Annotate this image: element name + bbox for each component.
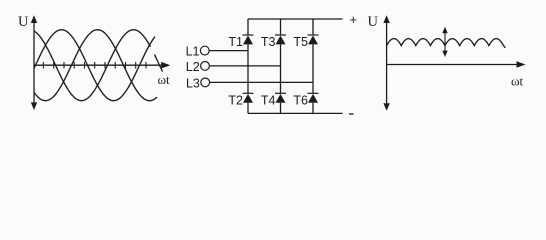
wire branch 1 lower	[247, 103, 249, 114]
left plot vertical axis U	[31, 15, 37, 110]
sine wave phase A	[34, 30, 155, 101]
svg-text:L3: L3	[186, 76, 200, 90]
wire bottom rail	[248, 112, 343, 114]
thyristor T1	[243, 35, 254, 44]
rectified ripple waveform	[387, 39, 506, 48]
thyristor T2	[243, 93, 254, 102]
svg-text:T5: T5	[293, 35, 308, 49]
wire branch 3 upper	[312, 19, 314, 35]
svg-text:L1: L1	[186, 45, 200, 59]
svg-text:ωt: ωt	[511, 73, 524, 88]
thyristor T4	[275, 93, 286, 102]
svg-text:T1: T1	[228, 35, 243, 49]
svg-text:U: U	[368, 14, 379, 30]
node L3 terminal	[201, 78, 210, 87]
svg-text:T2: T2	[228, 93, 243, 107]
sine wave phase B	[34, 30, 157, 101]
right plot vertical axis U	[383, 15, 389, 111]
ripple amplitude double arrow	[442, 27, 447, 57]
wire branch 1 middle	[247, 44, 249, 93]
left plot horizontal axis	[34, 62, 170, 69]
wire branch 2 middle	[280, 44, 282, 93]
svg-text:T4: T4	[261, 93, 276, 107]
wire top rail	[248, 18, 343, 20]
wire branch 2 lower	[280, 103, 282, 114]
svg-text:+: +	[350, 12, 358, 27]
left plot axis ticks	[43, 62, 146, 69]
sine wave phase C	[34, 30, 151, 101]
thyristor T6	[308, 93, 319, 102]
node -	[349, 113, 354, 115]
svg-text:L2: L2	[186, 60, 200, 74]
thyristor T5	[308, 35, 319, 44]
wire branch 3 middle	[312, 44, 314, 93]
wire branch 1 upper	[247, 19, 249, 35]
svg-text:T6: T6	[293, 93, 308, 107]
right plot horizontal axis	[387, 61, 526, 68]
thyristor T3	[275, 35, 286, 44]
wire L3	[210, 81, 313, 83]
svg-text:T3: T3	[261, 35, 276, 49]
node L1 terminal	[200, 46, 209, 55]
wire branch 3 lower	[312, 103, 314, 114]
node L2 terminal	[201, 62, 210, 71]
wire branch 2 upper	[280, 19, 282, 35]
svg-text:U: U	[18, 14, 29, 30]
wire L2	[210, 65, 281, 67]
svg-text:ωt: ωt	[158, 72, 171, 87]
wire L1	[210, 50, 249, 52]
